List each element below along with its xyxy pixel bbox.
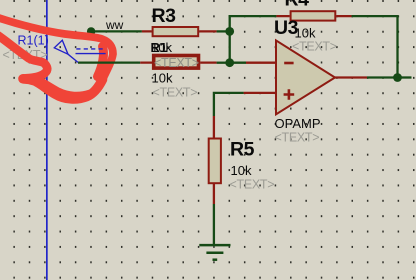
wire: node C stub right bbox=[398, 76, 412, 78]
svg-text:<TEXT>: <TEXT> bbox=[275, 131, 320, 145]
wire: generator node to R3 (y=31.4) bbox=[88, 30, 142, 32]
generator symbol (blue probe triangle) bbox=[54, 40, 105, 62]
sheet border (blue vertical line) bbox=[46, 0, 48, 280]
plus sign bbox=[284, 89, 295, 99]
svg-text:OPAMP: OPAMP bbox=[275, 116, 321, 131]
svg-text:R4: R4 bbox=[285, 0, 310, 11]
svg-text:R1: R1 bbox=[151, 40, 168, 55]
wire: junction B to op-amp inverting input bbox=[230, 62, 246, 64]
wire: op-amp output to node C bbox=[367, 76, 398, 78]
svg-text:R1(1): R1(1) bbox=[18, 34, 49, 48]
resistor R1/R4 overlapped pair (doubled body) bbox=[140, 56, 216, 69]
svg-text:R3: R3 bbox=[152, 5, 177, 27]
wire: R4 right, corner down to output node bbox=[352, 16, 398, 77]
node B junction dot bbox=[225, 58, 234, 67]
wire: junction A up and right to R4 bbox=[230, 16, 277, 33]
svg-text:ww: ww bbox=[105, 18, 124, 32]
wire: R1 right to junction B bbox=[217, 62, 230, 64]
op-amp U3 pins bbox=[244, 63, 367, 93]
svg-text:10k: 10k bbox=[231, 163, 252, 178]
resistor R4 (top right) bbox=[276, 11, 351, 20]
svg-text:10k: 10k bbox=[152, 71, 173, 86]
svg-text:R5: R5 bbox=[230, 138, 255, 160]
node C junction dot bbox=[393, 73, 402, 82]
red annotation scribble bbox=[0, 17, 113, 99]
resistor R5 (vertical) bbox=[209, 116, 221, 204]
svg-text:U3: U3 bbox=[274, 17, 299, 39]
svg-text:<TEXT>: <TEXT> bbox=[230, 178, 275, 192]
resistor R3 bbox=[142, 27, 217, 36]
op-amp U3 body bbox=[276, 40, 335, 114]
minus sign bbox=[284, 62, 293, 65]
ground bbox=[199, 245, 230, 260]
wire: junction A down to junction B bbox=[229, 31, 231, 62]
svg-text:<TEXT>: <TEXT> bbox=[154, 56, 199, 70]
svg-text:<TEXT>: <TEXT> bbox=[292, 39, 337, 53]
svg-text:<TEXT>: <TEXT> bbox=[153, 85, 198, 99]
junction dot at wire ww start (under annotation) bbox=[87, 27, 95, 35]
wire: generator lead to R1 (y=62.6) bbox=[78, 61, 140, 63]
wire: + input down-left corner to R5 bbox=[214, 93, 244, 116]
wire: R5 bottom to ground bbox=[213, 204, 215, 244]
wire: R3 right to junction A bbox=[217, 30, 230, 32]
node A junction dot bbox=[225, 27, 234, 36]
